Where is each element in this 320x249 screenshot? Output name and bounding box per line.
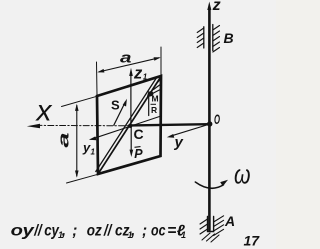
svg-text:;: ;	[72, 222, 77, 239]
svg-text:оz: оz	[87, 222, 102, 239]
svg-text:a: a	[120, 50, 132, 67]
svg-text:z: z	[212, 0, 221, 14]
svg-text:1: 1	[143, 72, 148, 81]
svg-text:M: M	[152, 94, 159, 104]
svg-text:1: 1	[181, 230, 186, 240]
svg-text:оу: оу	[11, 222, 36, 239]
svg-text:;: ;	[142, 222, 147, 239]
svg-text:O: O	[214, 112, 220, 127]
svg-text:a: a	[55, 133, 72, 148]
svg-text:y: y	[174, 134, 184, 151]
svg-text:=: =	[167, 222, 176, 239]
svg-text:B: B	[224, 30, 234, 46]
svg-text:,: ,	[130, 222, 135, 239]
svg-text:z: z	[133, 64, 143, 82]
svg-text:P: P	[134, 147, 143, 161]
svg-text:ос: ос	[151, 222, 166, 239]
svg-text:R: R	[151, 105, 157, 115]
svg-text:S: S	[111, 98, 120, 113]
svg-text://: //	[33, 222, 43, 239]
svg-text:C: C	[134, 126, 144, 142]
svg-text:ω: ω	[234, 160, 251, 190]
svg-text:1: 1	[91, 148, 96, 157]
svg-text://: //	[103, 222, 113, 239]
svg-text:,: ,	[61, 222, 66, 239]
svg-text:A: A	[224, 213, 235, 229]
svg-text:x: x	[35, 95, 53, 128]
svg-text:17: 17	[244, 233, 261, 249]
